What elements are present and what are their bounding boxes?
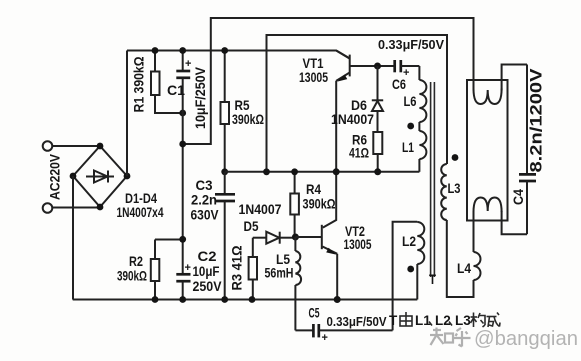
node R1/C1 bottom junction <box>179 110 186 117</box>
node bridge top corner <box>97 143 104 150</box>
node bridge left corner <box>70 173 77 180</box>
svg-text:13005: 13005 <box>344 236 372 252</box>
svg-text:+: + <box>322 332 328 344</box>
svg-text:C1: C1 <box>167 82 185 98</box>
lamp top filament <box>474 89 502 105</box>
wire L2 top to C5 <box>393 222 418 331</box>
node R5 top <box>221 47 228 54</box>
capacitor C5 <box>295 329 313 331</box>
wire half-bridge midpoint rail <box>225 171 420 173</box>
svg-text:R3 41Ω: R3 41Ω <box>229 246 245 291</box>
AC terminal bottom circle <box>43 203 53 213</box>
inductor L3 <box>441 164 447 220</box>
svg-text:T: T <box>429 271 436 287</box>
resistor R5 <box>224 51 226 103</box>
svg-text:L1: L1 <box>415 313 431 328</box>
capacitor C3 <box>224 172 226 194</box>
svg-text:L3: L3 <box>455 313 471 328</box>
resistor R1 <box>154 51 156 72</box>
inductor L6 <box>418 66 420 80</box>
capacitor C1 (electrolytic) <box>182 51 184 71</box>
resistor R6 <box>373 132 382 154</box>
node VT2 base junction <box>292 234 299 241</box>
caption comma 2 <box>449 322 452 326</box>
wire lamp return loop (midpoint to lamp top) <box>183 18 474 144</box>
svg-text:250V: 250V <box>193 278 223 294</box>
wire bridge plus up to top rail <box>126 51 128 177</box>
inductor L1 <box>418 122 420 131</box>
svg-text:0.33μF/50V: 0.33μF/50V <box>327 314 387 329</box>
node R1 top <box>152 47 159 54</box>
caption glyph 构 <box>471 313 486 328</box>
bridge inner diode symbol <box>86 171 114 183</box>
svg-text:L2: L2 <box>435 313 451 328</box>
node bridge right corner <box>124 173 131 180</box>
node bridge bottom corner <box>97 204 104 211</box>
svg-text:C5: C5 <box>309 305 320 321</box>
svg-text:C6: C6 <box>392 76 406 92</box>
svg-text:L3: L3 <box>448 180 461 196</box>
resistor R4 <box>294 172 296 194</box>
wire top rail <box>127 51 350 59</box>
svg-text:T: T <box>389 313 398 328</box>
node VT2 emitter bottom <box>334 296 341 303</box>
wire AC bottom to bridge <box>52 207 100 209</box>
fluorescent lamp tube <box>467 80 508 221</box>
svg-text:10μF/250V: 10μF/250V <box>192 66 208 129</box>
transistor VT1 collector <box>336 51 349 59</box>
svg-text:41Ω: 41Ω <box>349 145 369 161</box>
node C3 bottom <box>221 296 228 303</box>
wire inner loop (midpoint to L3) <box>267 35 448 172</box>
svg-text:D5: D5 <box>244 218 259 234</box>
transistor VT1 base bar <box>349 55 351 77</box>
node inner loop junction <box>263 168 270 175</box>
svg-text:630V: 630V <box>191 207 220 223</box>
transformer core lines <box>430 82 432 277</box>
svg-text:C4: C4 <box>510 189 526 205</box>
svg-text:AC220V: AC220V <box>47 153 63 200</box>
svg-text:1N4007x4: 1N4007x4 <box>117 204 164 220</box>
capacitor C4 <box>526 65 528 175</box>
caption glyph 成 <box>487 313 501 328</box>
svg-text:0.33μF/50V: 0.33μF/50V <box>378 37 444 52</box>
wire bridge minus down left side <box>72 176 74 300</box>
wire bottom rail <box>73 299 418 301</box>
inductor L2 <box>417 222 424 264</box>
AC terminal top circle <box>43 141 53 151</box>
node winding dot L2 <box>407 266 414 273</box>
node midpoint C1/C2 column <box>179 141 186 148</box>
wire AC top to bridge <box>52 145 100 147</box>
node R4 top <box>291 168 298 175</box>
node R2 mid tap <box>179 236 186 243</box>
wire VT1 emitter down to VT2 collector <box>323 81 336 228</box>
transistor VT2 emitter with arrow <box>323 247 338 254</box>
node R5/C3 junction <box>221 168 228 175</box>
inductor L4 <box>474 252 481 280</box>
svg-text:L2: L2 <box>402 233 416 249</box>
watermark glyph 知 <box>430 328 453 346</box>
svg-text:390kΩ: 390kΩ <box>303 196 336 212</box>
bridge rectifier D1-D4 diamond <box>73 146 127 207</box>
transistor VT2 base bar <box>321 225 323 249</box>
node C1 top <box>179 47 186 54</box>
resistor R3 <box>252 238 254 257</box>
node VT1 base / D6 / C6 <box>374 63 381 70</box>
node winding dot L3 <box>452 154 459 161</box>
svg-text:2.2n: 2.2n <box>191 192 217 208</box>
node R3 bottom <box>249 296 256 303</box>
svg-text:C2: C2 <box>198 248 217 264</box>
capacitor C2 (electrolytic) <box>176 273 190 276</box>
watermark glyph 乎 <box>454 328 471 347</box>
svg-text:390kΩ: 390kΩ <box>232 111 264 127</box>
svg-text:56mH: 56mH <box>265 265 294 281</box>
svg-text:@bangqian: @bangqian <box>474 327 578 350</box>
diode D6 <box>377 66 379 100</box>
svg-text:L1: L1 <box>402 139 414 155</box>
resistor R2 <box>154 240 156 260</box>
node C2 bottom <box>179 296 186 303</box>
node VT1 emitter midpoint junction <box>333 168 340 175</box>
svg-text:+: + <box>185 58 191 70</box>
lamp bottom filament <box>474 198 502 213</box>
diode D5 <box>253 237 266 239</box>
caption comma 1 <box>429 322 432 326</box>
transistor VT2 base wire <box>295 236 321 238</box>
svg-text:+: + <box>185 262 191 274</box>
caption glyph 由 <box>400 312 412 326</box>
svg-text:10μF: 10μF <box>193 263 220 279</box>
svg-text:L4: L4 <box>457 260 471 276</box>
svg-text:1N4007: 1N4007 <box>239 201 282 217</box>
transistor VT1 emitter with arrow <box>336 73 350 81</box>
node R6 bottom <box>374 168 381 175</box>
svg-text:L6: L6 <box>404 93 417 109</box>
wire VT1 base to node <box>351 65 395 67</box>
node winding dot L6/L1 <box>407 123 414 130</box>
svg-text:13005: 13005 <box>299 69 328 85</box>
capacitor C6 <box>393 60 396 72</box>
node R2 bottom <box>152 296 159 303</box>
inductor L5 <box>294 237 296 251</box>
svg-text:390kΩ: 390kΩ <box>117 268 147 284</box>
svg-text:8.2n/1200V: 8.2n/1200V <box>526 68 545 173</box>
svg-text:1N4007: 1N4007 <box>331 111 374 127</box>
svg-text:R1 390kΩ: R1 390kΩ <box>131 57 147 113</box>
